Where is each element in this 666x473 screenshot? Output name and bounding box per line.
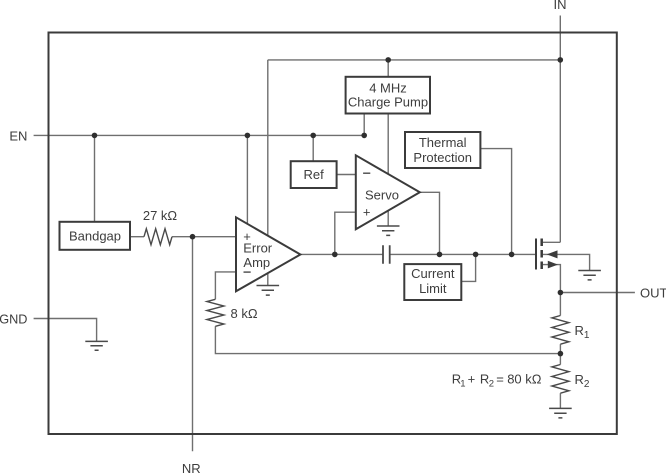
block Current Limit (404, 264, 461, 300)
wire: EN stem down to Error Amp top edge (246, 135, 248, 224)
junction dot EN at charge pump stem (361, 133, 367, 139)
wire: MOSFET body to ground (543, 254, 590, 270)
wire: EN horizontal line (34, 134, 365, 136)
block Ref (291, 161, 337, 188)
junction dot thermal protection on main line (509, 252, 515, 258)
svg-text:=: = (496, 371, 504, 386)
svg-text:Limit: Limit (419, 281, 447, 296)
op-amp Error Amp (236, 217, 300, 291)
wire: NR vertical line (192, 237, 194, 452)
junction dot EN at ref stem (310, 133, 316, 139)
wire: main line Error Amp output to capacitor (300, 253, 383, 255)
wire: EN stem down to Ref (312, 135, 314, 161)
wire: 8k resistor bottom to feedback line (215, 326, 560, 353)
wire: R2 bottom to ground (559, 393, 561, 408)
wire: vertical from top rail down to Error Amp top edge (267, 60, 269, 236)
wire: Servo output down to main line (420, 192, 440, 254)
capacitor in series on gate line (383, 245, 390, 264)
junction dot current limit on main line (473, 252, 479, 258)
block 4 MHz Charge Pump (346, 77, 430, 114)
transistor Q1: body arrow (547, 250, 558, 258)
junction dot on IN line at top rail (558, 57, 564, 63)
svg-text:Amp: Amp (243, 255, 270, 270)
svg-text:+: + (363, 205, 371, 220)
resistor 27 kOhm (144, 229, 172, 245)
wire: IN vertical line (559, 16, 561, 243)
wire: Thermal Protection output down to gate line (480, 149, 511, 255)
wire: Ref output to Servo - input (337, 174, 356, 176)
block Bandgap (60, 222, 131, 250)
block Thermal Protection (405, 132, 480, 168)
svg-text:2: 2 (489, 379, 494, 390)
junction dot EN at bandgap stem (92, 133, 98, 139)
outer IC boundary box (49, 33, 617, 435)
wire: MOSFET drain to IN (543, 241, 561, 243)
wire: Bandgap to 27k resistor (130, 236, 144, 238)
wire: top rail from x=267.8 to IN (268, 59, 561, 61)
wire: MOSFET source down to OUT node (543, 265, 561, 293)
svg-text:4 MHz: 4 MHz (369, 81, 407, 96)
junction dot on top rail at charge pump (385, 57, 391, 63)
transistor Q1 pass PMOS: gate bar (535, 239, 537, 270)
transistor Q1: channel segments (540, 239, 543, 270)
svg-text:Current: Current (411, 266, 455, 281)
svg-text:27 kΩ: 27 kΩ (143, 208, 178, 223)
svg-text:8 kΩ: 8 kΩ (231, 306, 258, 321)
ground at MOSFET body (578, 271, 601, 280)
svg-text:Servo: Servo (365, 188, 399, 203)
svg-text:Ref: Ref (303, 167, 324, 182)
wire: charge pump top stem (387, 60, 389, 77)
svg-text:+: + (468, 371, 476, 386)
junction dot feedback node (558, 351, 564, 357)
op-amp Servo (356, 155, 420, 229)
svg-text:1: 1 (460, 379, 465, 390)
svg-text:GND: GND (0, 312, 27, 326)
wire: R1 bottom to feedback node (559, 344, 561, 364)
wire: GND entry line (34, 319, 97, 342)
junction dot servo output on main line (437, 252, 443, 258)
wire: charge pump bottom stem to EN (363, 114, 365, 136)
svg-text:IN: IN (554, 0, 567, 12)
resistor R2 (552, 365, 569, 394)
svg-text:NR: NR (182, 461, 201, 473)
wire: Error Amp ground stem (267, 273, 269, 285)
svg-text:Thermal: Thermal (419, 135, 467, 150)
value label R1 + R2 = 80 kOhm (452, 371, 542, 389)
svg-text:R1: R1 (575, 323, 590, 341)
wire: EN stem down to Bandgap (94, 135, 96, 221)
ground below R2 (549, 408, 572, 418)
wire: Servo + input from main line (335, 212, 356, 254)
svg-text:Bandgap: Bandgap (69, 229, 121, 244)
svg-text:EN: EN (9, 128, 27, 143)
wire: Current Limit connection (461, 254, 475, 281)
svg-text:80 kΩ: 80 kΩ (507, 371, 542, 386)
ground below Error Amp (257, 286, 280, 296)
ground below Servo (377, 226, 400, 235)
svg-text:Error: Error (243, 240, 273, 255)
wire: 27k resistor to Error Amp + input (172, 236, 236, 238)
svg-text:Charge Pump: Charge Pump (348, 95, 428, 110)
transistor Q1: source arrow (548, 261, 558, 269)
svg-text:OUT: OUT (640, 286, 666, 301)
wire: main line capacitor to MOSFET gate (390, 253, 536, 255)
wire: charge pump bottom stem down to Servo top edge (387, 114, 389, 175)
wire: Servo ground stem (387, 211, 389, 226)
wire: OUT node down to R1 (559, 293, 561, 316)
svg-text:R2: R2 (575, 372, 590, 390)
wire: OUT line (560, 292, 635, 294)
resistor R1 (552, 316, 569, 345)
resistor 8 kOhm (207, 299, 224, 326)
junction dot OUT node (558, 290, 564, 296)
junction dot servo + on main line (332, 252, 338, 258)
junction dot at 27k / NR node (190, 234, 196, 240)
svg-text:Protection: Protection (413, 150, 472, 165)
ground at GND pin (85, 341, 108, 350)
junction dot EN at error amp stem (245, 133, 251, 139)
wire: Error Amp - input to 8k resistor (215, 272, 236, 299)
